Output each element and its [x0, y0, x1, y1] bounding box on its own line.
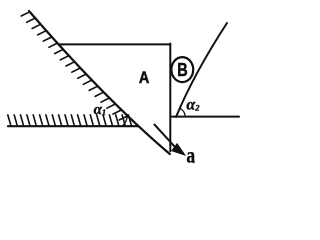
svg-text:B: B	[177, 59, 187, 80]
acceleration arrow shaft	[155, 125, 176, 148]
wedge A top line	[60, 43, 171, 45]
right ground line	[170, 116, 239, 118]
acceleration arrow head	[172, 144, 185, 155]
incline wall line	[29, 11, 170, 154]
angle arc alpha1	[123, 115, 128, 126]
left ground line	[8, 125, 138, 127]
circle B	[171, 57, 193, 82]
svg-text:a: a	[186, 144, 195, 168]
right incline line	[176, 23, 227, 117]
svg-text:A: A	[139, 69, 149, 87]
angle arc alpha2	[180, 108, 185, 116]
wedge A right vertical	[169, 44, 171, 152]
ground hatching	[8, 115, 132, 126]
incline hatching	[21, 12, 127, 120]
